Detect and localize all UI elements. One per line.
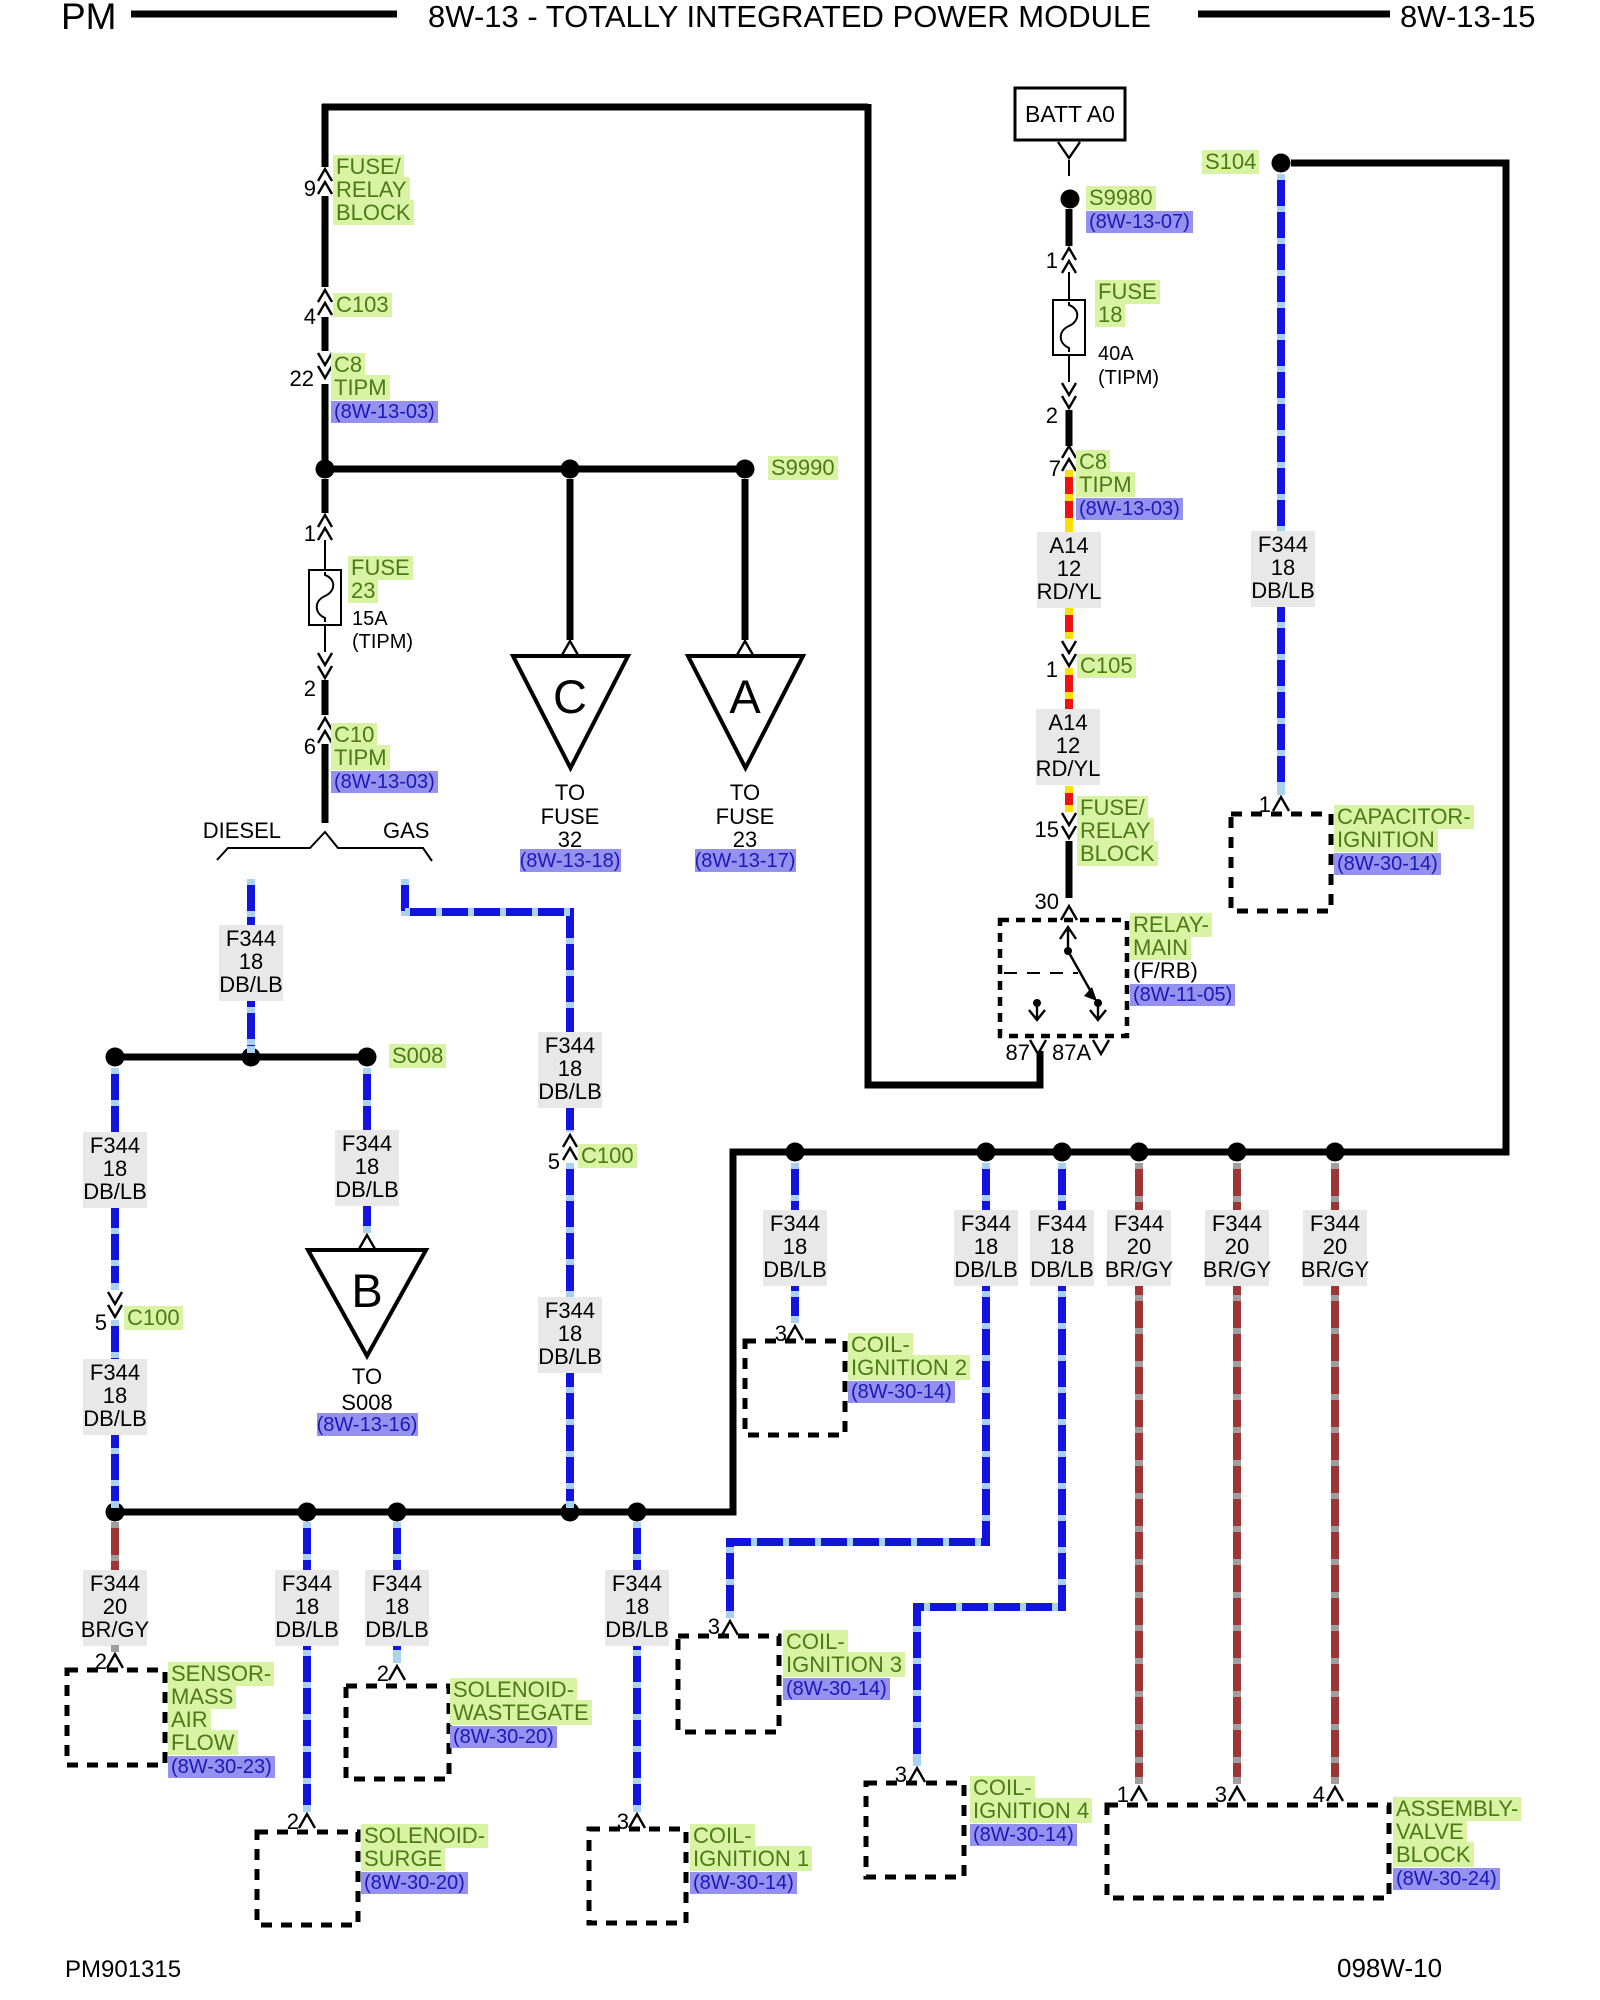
svg-text:BR/GY: BR/GY xyxy=(1203,1257,1272,1282)
svg-text:20: 20 xyxy=(1323,1234,1347,1259)
svg-text:A14: A14 xyxy=(1048,710,1087,735)
solenoid-surge connector box xyxy=(257,1832,358,1925)
wire xyxy=(1066,209,1073,246)
coil-ignition 2 pin 3 xyxy=(787,1326,803,1340)
wire xyxy=(322,317,329,351)
wire tracer end caps xyxy=(791,1316,799,1323)
splice dot lower bus x397 xyxy=(388,1503,407,1522)
svg-text:22: 22 xyxy=(290,366,314,391)
wire thin below fuse 18 xyxy=(1068,355,1070,382)
splice dot mid bus x1062 xyxy=(1053,1143,1072,1162)
wire label A14 12 RD/YL xyxy=(1037,532,1101,608)
svg-text:(8W-13-18): (8W-13-18) xyxy=(520,850,621,872)
splice dot lower bus x637 xyxy=(628,1503,647,1522)
wire F344 from S008 to C100 xyxy=(111,1068,119,1290)
connector C103 pin 4 xyxy=(318,290,332,315)
wire label F344 18 DB/LB diesel xyxy=(219,925,283,1001)
wire label F344 20 BR/GY 4 xyxy=(1303,1210,1367,1286)
svg-text:F344: F344 xyxy=(1037,1211,1087,1236)
splice dot S104 xyxy=(1272,154,1291,173)
svg-text:098W-10: 098W-10 xyxy=(1337,1953,1442,1983)
svg-text:20: 20 xyxy=(1225,1234,1249,1259)
connector C100 pin 5 gas xyxy=(563,1135,577,1160)
svg-text:32: 32 xyxy=(558,827,582,852)
wire xyxy=(1066,841,1073,898)
wire to triangle C xyxy=(567,479,574,640)
connector C8 TIPM pin 7 xyxy=(1062,446,1076,471)
splice dot S9990 middle xyxy=(561,460,580,479)
wire F344 BR/GY to valve block pin 3 xyxy=(1233,1163,1241,1784)
coil-ignition 2 connector box xyxy=(745,1341,845,1435)
svg-text:F344: F344 xyxy=(545,1298,595,1323)
svg-text:FUSE: FUSE xyxy=(541,804,600,829)
battery box chevron xyxy=(1058,142,1080,158)
pin chevron triangle C xyxy=(562,641,578,655)
splice dot mid bus x795 xyxy=(786,1143,805,1162)
valve block pin 4 xyxy=(1327,1787,1343,1801)
off-page triangle C xyxy=(513,656,628,768)
svg-text:DB/LB: DB/LB xyxy=(538,1079,602,1104)
svg-text:18: 18 xyxy=(625,1594,649,1619)
power bus path lower xyxy=(115,163,1506,1512)
svg-text:F344: F344 xyxy=(282,1571,332,1596)
svg-text:1: 1 xyxy=(1046,657,1058,682)
wire label F344 18 DB/LB coil3 xyxy=(954,1210,1018,1286)
svg-text:18: 18 xyxy=(974,1234,998,1259)
wire A14 RD/YL segment 4 xyxy=(1065,786,1073,812)
wire label F344 18 DB/LB xyxy=(335,1130,399,1206)
wire label F344 18 DB/LB gas2 xyxy=(538,1297,602,1373)
wire label F344 20 BR/GY 1 xyxy=(1107,1210,1171,1286)
svg-text:40A: 40A xyxy=(1098,343,1134,365)
relay divider dashed xyxy=(1004,972,1078,974)
fuse 18 label xyxy=(1095,280,1175,330)
svg-text:20: 20 xyxy=(103,1594,127,1619)
wire label F344 18 DB/LB coil2 xyxy=(763,1210,827,1286)
assembly-valve block connector box xyxy=(1107,1805,1389,1898)
svg-text:TO: TO xyxy=(730,780,760,805)
svg-text:18: 18 xyxy=(558,1321,582,1346)
svg-text:18: 18 xyxy=(103,1383,127,1408)
svg-text:6: 6 xyxy=(304,734,316,759)
wire F344 to surge solenoid xyxy=(303,1522,311,1812)
svg-text:(TIPM): (TIPM) xyxy=(352,631,413,653)
svg-text:F344: F344 xyxy=(545,1033,595,1058)
relay contact 87 arrow xyxy=(1033,999,1041,1007)
coil-ignition 1 connector box xyxy=(589,1829,686,1923)
connector C10 TIPM pin 6 xyxy=(318,718,332,743)
svg-text:F344: F344 xyxy=(226,926,276,951)
svg-text:87A: 87A xyxy=(1052,1040,1091,1065)
coil-ignition 3 connector box xyxy=(678,1636,779,1732)
splice label S104 xyxy=(1202,150,1292,176)
header rule right xyxy=(1198,11,1390,18)
svg-text:2: 2 xyxy=(1046,403,1058,428)
svg-text:F344: F344 xyxy=(1114,1211,1164,1236)
connector pin 1 fuse 23 xyxy=(318,515,332,540)
svg-text:18: 18 xyxy=(103,1156,127,1181)
svg-text:BR/GY: BR/GY xyxy=(1301,1257,1370,1282)
svg-text:DB/LB: DB/LB xyxy=(1030,1257,1094,1282)
wire label F344 18 DB/LB wastegate xyxy=(365,1570,429,1646)
wire xyxy=(322,479,329,513)
svg-text:18: 18 xyxy=(558,1056,582,1081)
svg-text:2: 2 xyxy=(304,676,316,701)
battery feed box BATT A0 xyxy=(1015,88,1125,140)
svg-text:FUSE: FUSE xyxy=(716,804,775,829)
splice label S9990 xyxy=(768,456,868,482)
svg-text:15: 15 xyxy=(1035,817,1059,842)
wire xyxy=(1066,410,1073,446)
relay label xyxy=(1130,913,1300,1017)
wire label F344 18 DB/LB surge xyxy=(275,1570,339,1646)
splice dot S9990 left xyxy=(316,460,335,479)
splice dot S008 middle xyxy=(242,1048,261,1067)
splice label S9980 xyxy=(1086,186,1266,238)
svg-text:9: 9 xyxy=(304,176,316,201)
svg-text:RD/YL: RD/YL xyxy=(1036,756,1101,781)
svg-text:TO: TO xyxy=(352,1364,382,1389)
connector C105 pin 1 xyxy=(1062,641,1076,666)
svg-text:DB/LB: DB/LB xyxy=(83,1406,147,1431)
splice bus S9990 xyxy=(325,466,745,473)
svg-text:RD/YL: RD/YL xyxy=(1037,579,1102,604)
splice dot mid bus x1237 xyxy=(1228,1143,1247,1162)
svg-text:18: 18 xyxy=(355,1154,379,1179)
svg-text:18: 18 xyxy=(385,1594,409,1619)
pin chevron triangle A xyxy=(737,641,753,655)
splice dot S9990 right xyxy=(736,460,755,479)
svg-text:DIESEL: DIESEL xyxy=(203,818,281,843)
wire A14 RD/YL segment 1 xyxy=(1065,470,1073,532)
wire F344 BR/GY to valve block pin 4 xyxy=(1331,1163,1339,1784)
relay pin 30 xyxy=(1061,906,1077,920)
svg-text:DB/LB: DB/LB xyxy=(219,972,283,997)
svg-text:12: 12 xyxy=(1056,733,1080,758)
wire F344 diesel branch xyxy=(247,879,255,1053)
svg-text:1: 1 xyxy=(1046,248,1058,273)
wire xyxy=(322,384,329,460)
splice dot mid bus x1139 xyxy=(1130,1143,1149,1162)
svg-text:F344: F344 xyxy=(1258,532,1308,557)
svg-text:DB/LB: DB/LB xyxy=(1251,578,1315,603)
svg-text:18: 18 xyxy=(239,949,263,974)
wire xyxy=(322,680,329,715)
wire F344 gas to lower bus xyxy=(566,1163,574,1508)
solenoid-wastegate connector box xyxy=(346,1686,449,1779)
relay-main box xyxy=(1000,920,1127,1036)
relay coil contact arrow up xyxy=(1060,927,1076,951)
wire label F344 18 DB/LB coil1 xyxy=(605,1570,669,1646)
fuse F18 symbol xyxy=(1053,300,1085,355)
svg-text:F344: F344 xyxy=(372,1571,422,1596)
svg-text:DB/LB: DB/LB xyxy=(275,1617,339,1642)
relay contact 87A arrow xyxy=(1090,1003,1106,1020)
svg-text:DB/LB: DB/LB xyxy=(365,1617,429,1642)
splice dot S9980 xyxy=(1061,190,1080,209)
splice label S008 xyxy=(389,1044,479,1070)
coil-ignition 1 pin 3 xyxy=(629,1814,645,1828)
svg-text:GAS: GAS xyxy=(383,818,429,843)
svg-text:BATT A0: BATT A0 xyxy=(1025,101,1115,127)
off-page triangle A xyxy=(688,656,803,768)
svg-text:F344: F344 xyxy=(1310,1211,1360,1236)
wire label F344 18 DB/LB xyxy=(83,1132,147,1208)
svg-text:5: 5 xyxy=(548,1149,560,1174)
svg-text:F344: F344 xyxy=(770,1211,820,1236)
pin chevron triangle B xyxy=(359,1235,375,1249)
capacitor pin 1 xyxy=(1273,797,1289,811)
valve block pin 3 xyxy=(1229,1787,1245,1801)
wire left drop from top bus xyxy=(322,104,329,167)
connector C100 pin 5 xyxy=(108,1292,122,1317)
svg-text:DB/LB: DB/LB xyxy=(763,1257,827,1282)
svg-text:15A: 15A xyxy=(352,608,388,630)
splice dot S008 right xyxy=(358,1048,377,1067)
header rule left xyxy=(131,11,397,18)
wire A14 RD/YL segment 2 xyxy=(1065,608,1073,639)
wire xyxy=(322,196,329,287)
sensor pin 2 xyxy=(107,1654,123,1668)
splice dot mid bus x986 xyxy=(977,1143,996,1162)
wire to triangle A xyxy=(742,479,749,640)
splice bus S008 xyxy=(115,1054,367,1061)
wire top bus from fuse/relay block xyxy=(322,104,868,111)
relay switch blade xyxy=(1068,951,1090,990)
connector pin 2 fuse 18 xyxy=(1062,383,1076,408)
wire F344 gas branch xyxy=(405,879,570,1132)
splice dot lower bus x115 xyxy=(106,1503,125,1522)
svg-text:PM: PM xyxy=(61,0,117,37)
coil-ignition 3 pin 3 xyxy=(722,1621,738,1635)
svg-text:S008: S008 xyxy=(341,1390,392,1415)
wire F344 to wastegate solenoid xyxy=(393,1522,401,1663)
svg-text:F344: F344 xyxy=(1212,1211,1262,1236)
wire label A14 12 RD/YL 2 xyxy=(1036,709,1100,785)
svg-text:F344: F344 xyxy=(90,1360,140,1385)
svg-text:23: 23 xyxy=(733,827,757,852)
wire F344 to coil-ignition 3 xyxy=(730,1163,986,1618)
svg-text:(8W-13-16): (8W-13-16) xyxy=(317,1414,418,1436)
svg-text:(8W-13-17): (8W-13-17) xyxy=(695,850,796,872)
svg-text:30: 30 xyxy=(1035,889,1059,914)
svg-text:F344: F344 xyxy=(90,1571,140,1596)
svg-text:4: 4 xyxy=(304,304,316,329)
svg-text:F344: F344 xyxy=(342,1131,392,1156)
svg-text:7: 7 xyxy=(1049,456,1061,481)
connector pin 2 fuse 23 xyxy=(318,653,332,678)
svg-text:A: A xyxy=(729,670,761,723)
fuse 23 label xyxy=(348,556,428,606)
svg-text:DB/LB: DB/LB xyxy=(538,1344,602,1369)
valve block pin 1 xyxy=(1131,1787,1147,1801)
wire label F344 20 BR/GY sensor xyxy=(83,1570,147,1646)
svg-text:12: 12 xyxy=(1057,556,1081,581)
wire F344 to triangle B xyxy=(363,1068,371,1233)
diesel/gas selector brace xyxy=(217,832,432,861)
svg-text:18: 18 xyxy=(295,1594,319,1619)
wire label F344 18 DB/LB gas xyxy=(538,1032,602,1108)
wire F344 BR/GY to mass air flow sensor xyxy=(111,1522,119,1652)
wastegate solenoid pin 2 xyxy=(389,1666,405,1680)
wire F344 from C100 to lower bus xyxy=(111,1320,119,1508)
svg-text:8W-13-15: 8W-13-15 xyxy=(1400,0,1536,34)
wire thin into fuse 18 xyxy=(1068,272,1070,300)
wire label F344 20 BR/GY 3 xyxy=(1205,1210,1269,1286)
svg-text:F344: F344 xyxy=(612,1571,662,1596)
svg-text:8W-13 - TOTALLY INTEGRATED POW: 8W-13 - TOTALLY INTEGRATED POWER MODULE xyxy=(428,0,1151,34)
connector pin 1 fuse 18 xyxy=(1062,248,1076,273)
svg-text:B: B xyxy=(351,1264,382,1317)
svg-text:DB/LB: DB/LB xyxy=(954,1257,1018,1282)
svg-text:DB/LB: DB/LB xyxy=(605,1617,669,1642)
wire thin below fuse xyxy=(324,625,326,652)
wire label F344 18 DB/LB xyxy=(83,1359,147,1435)
svg-text:18: 18 xyxy=(1050,1234,1074,1259)
svg-text:F344: F344 xyxy=(961,1211,1011,1236)
wire F344 to coil-ignition 2 xyxy=(791,1163,799,1323)
svg-text:20: 20 xyxy=(1127,1234,1151,1259)
svg-text:F344: F344 xyxy=(90,1133,140,1158)
svg-text:18: 18 xyxy=(783,1234,807,1259)
svg-text:5: 5 xyxy=(95,1310,107,1335)
coil-ignition 4 connector box xyxy=(866,1783,964,1877)
wire A14 RD/YL segment 3 xyxy=(1065,668,1073,709)
fuse F23 symbol xyxy=(309,570,341,625)
wire label F344 18 DB/LB coil4 xyxy=(1030,1210,1094,1286)
sensor-mass air flow connector box xyxy=(67,1670,165,1765)
svg-text:2: 2 xyxy=(377,1661,389,1686)
wire F344 from S104 to capacitor xyxy=(1277,174,1285,795)
svg-text:(TIPM): (TIPM) xyxy=(1098,367,1159,389)
wire label F344 18 DB/LB s104 xyxy=(1251,531,1315,607)
svg-text:BR/GY: BR/GY xyxy=(1105,1257,1174,1282)
connector C8 TIPM pin 22 xyxy=(318,353,332,378)
coil-ignition 4 pin 3 xyxy=(909,1768,925,1782)
capacitor-ignition connector box xyxy=(1231,814,1331,911)
svg-text:1: 1 xyxy=(304,521,316,546)
svg-text:DB/LB: DB/LB xyxy=(83,1179,147,1204)
wire right drop from top bus to relay 87 xyxy=(868,104,1040,1085)
splice dot mid bus x1335 xyxy=(1326,1143,1345,1162)
wire F344 to coil-ignition 1 xyxy=(633,1522,641,1812)
wire xyxy=(322,744,329,823)
off-page triangle B xyxy=(308,1250,426,1356)
svg-text:BR/GY: BR/GY xyxy=(81,1617,150,1642)
wire F344 BR/GY to valve block pin 1 xyxy=(1135,1163,1143,1784)
svg-text:A14: A14 xyxy=(1049,533,1088,558)
wire F344 to coil-ignition 4 xyxy=(917,1163,1062,1766)
svg-text:PM901315: PM901315 xyxy=(65,1956,181,1983)
splice dot lower bus x570 xyxy=(561,1503,580,1522)
connector pin 15 fuse/relay block xyxy=(1062,813,1076,838)
splice dot lower bus x307 xyxy=(298,1503,317,1522)
svg-text:TO: TO xyxy=(555,780,585,805)
surge solenoid pin 2 xyxy=(299,1814,315,1828)
svg-text:87: 87 xyxy=(1006,1040,1030,1065)
splice dot S008 left xyxy=(106,1048,125,1067)
svg-text:C: C xyxy=(553,670,587,723)
svg-text:DB/LB: DB/LB xyxy=(335,1177,399,1202)
connector pin 9 FUSE/RELAY BLOCK xyxy=(318,169,332,194)
svg-text:18: 18 xyxy=(1271,555,1295,580)
wire thin into fuse xyxy=(324,540,326,570)
